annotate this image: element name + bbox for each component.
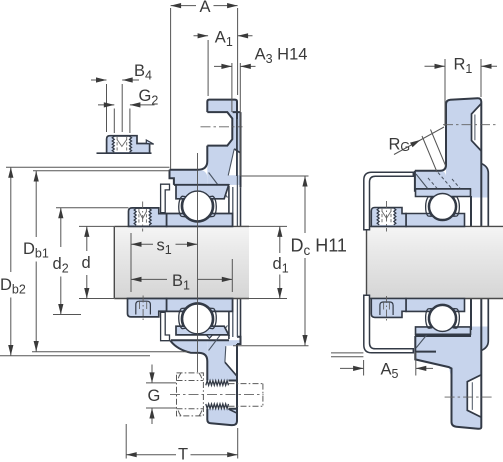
collar with grub screw (left view top) xyxy=(129,208,167,227)
dim A xyxy=(171,6,238,169)
hole walls (right view bottom) xyxy=(467,375,481,417)
bore wall and background edges (left view) xyxy=(229,186,241,339)
bore cavity white (right view) xyxy=(415,189,471,336)
bolt slot cut-out (left flange top) xyxy=(205,112,232,146)
ball (left view) xyxy=(183,191,213,221)
bolt hole centerline (right top) xyxy=(443,124,497,126)
svg-text:B4: B4 xyxy=(134,62,152,83)
dim d2 xyxy=(53,208,129,315)
threaded bolt hole cut-out (left flange bottom) xyxy=(205,381,237,409)
svg-text:A5: A5 xyxy=(381,361,399,382)
dim B4 xyxy=(91,80,139,132)
shaft (right view) xyxy=(367,226,503,298)
svg-text:RG: RG xyxy=(389,136,411,155)
svg-text:G: G xyxy=(148,387,161,405)
collar (left view bottom) xyxy=(128,299,167,317)
dim R1 xyxy=(425,59,498,126)
dim A5 xyxy=(340,352,433,376)
recess cone edges (left view) xyxy=(225,149,234,362)
svg-text:Db2: Db2 xyxy=(0,276,26,297)
dim Db2 xyxy=(10,167,12,355)
outer ring (right view) xyxy=(416,189,471,220)
shaft (left view) xyxy=(114,226,249,298)
detail thread xyxy=(112,136,114,152)
spot-face recess white (left flange, top) xyxy=(228,149,240,175)
pressed cover (right view top) xyxy=(364,172,414,230)
dim G xyxy=(146,365,176,425)
ball (right view) xyxy=(430,305,456,331)
Db extension lines xyxy=(0,167,363,357)
lube notch (left bottom ring) xyxy=(206,335,212,339)
grub screw head outline (left bottom) xyxy=(136,301,151,314)
hole inner edge lines (right view) xyxy=(472,115,475,410)
seal strip (left view top) xyxy=(161,184,170,212)
hole walls (right view top) xyxy=(472,104,482,152)
barrel top band fill (right view) xyxy=(415,171,446,189)
svg-text:R1: R1 xyxy=(454,55,473,76)
collar with grub screw (right view top) xyxy=(371,208,406,227)
casting web diagonals (left view) xyxy=(209,173,228,351)
pressed cover (right view bottom) xyxy=(364,295,414,353)
bolt hole thread (left flange bottom) xyxy=(206,381,229,386)
bolt hole cut (right view bottom, chamfered slot) xyxy=(467,375,481,417)
bolt hole cut (right view top, chamfered slot) xyxy=(472,104,482,152)
grub screw thread (left top collar) xyxy=(134,208,136,225)
seal strip (left view bottom) xyxy=(161,312,170,340)
spigot fill (left view, annulus sections + rim behind slot) xyxy=(237,112,241,187)
inner ring (right view) xyxy=(406,214,465,227)
cage (left view) xyxy=(179,196,217,217)
svg-text:G2: G2 xyxy=(139,87,159,108)
cage (right view) xyxy=(426,197,460,217)
svg-text:T: T xyxy=(178,446,188,462)
outer ring (left view bottom, clearance gap) xyxy=(176,303,229,335)
dim G2 xyxy=(98,105,155,133)
dim Db1 xyxy=(35,171,37,352)
housing flange plate fill (left view) xyxy=(207,100,237,426)
RG hidden fillet lines (right view) xyxy=(428,173,464,195)
detail lip xyxy=(146,140,153,144)
bottom mass fill (right view) xyxy=(415,335,481,379)
spot-face recess white (left flange, bottom) xyxy=(225,346,240,376)
dim A1 xyxy=(194,36,253,96)
inner ring (left view) xyxy=(167,299,233,312)
grub screw axis (left top) xyxy=(142,202,144,232)
outer ring (right view bottom, clearance gap) xyxy=(416,304,471,334)
web diagonals (right view) xyxy=(416,174,434,348)
svg-text:A3 H14: A3 H14 xyxy=(255,46,308,67)
svg-text:d1: d1 xyxy=(273,255,289,276)
svg-text:d: d xyxy=(82,254,91,272)
svg-text:d2: d2 xyxy=(53,255,69,276)
housing outline (left view) xyxy=(170,100,241,426)
spigot bump outline (right view) xyxy=(481,164,488,351)
dim d1 xyxy=(240,226,287,298)
ball (left view) xyxy=(183,304,213,334)
dim d xyxy=(79,226,114,298)
cage (right view) xyxy=(426,309,460,329)
housing barrel bottom fill (left view) xyxy=(171,340,208,361)
dim Dc H11 xyxy=(233,176,309,346)
svg-text:A1: A1 xyxy=(215,29,233,50)
inner ring (left view) xyxy=(167,214,233,227)
bolt axis (left bottom) xyxy=(170,394,264,396)
ball (right view) xyxy=(430,194,456,220)
bolt slot centerline (left flange) xyxy=(201,126,243,128)
dim A3 H14 xyxy=(214,63,256,176)
dim RG leader xyxy=(394,127,444,155)
svg-text:Db1: Db1 xyxy=(23,240,49,261)
spigot bump fill (right view) xyxy=(481,164,488,351)
dim T xyxy=(126,424,238,459)
cage (left view) xyxy=(179,308,217,329)
dim s1 xyxy=(131,233,198,292)
inner ring (right view) xyxy=(406,299,465,312)
svg-text:A: A xyxy=(200,0,211,16)
casting outline (right view) xyxy=(415,98,481,429)
bearing axis through balls (left view) xyxy=(197,153,199,372)
taper lines at spigot (left view) xyxy=(225,149,240,413)
bolt hole centerline (right bottom) xyxy=(445,396,493,398)
bearing cavity white (left view) xyxy=(174,185,241,340)
phantom hex bolt (left bottom) xyxy=(177,373,263,416)
housing barrel top fill (left view) xyxy=(170,170,208,185)
flange cross-section fill (right view) xyxy=(446,98,481,429)
detail: collar cross-section (top-left) xyxy=(107,136,150,154)
dim B1 xyxy=(131,259,232,292)
detail baseline xyxy=(97,152,152,154)
svg-text:Dc H11: Dc H11 xyxy=(291,236,347,259)
collar (right view bottom) xyxy=(371,299,406,318)
outer ring (left view) xyxy=(176,185,229,222)
